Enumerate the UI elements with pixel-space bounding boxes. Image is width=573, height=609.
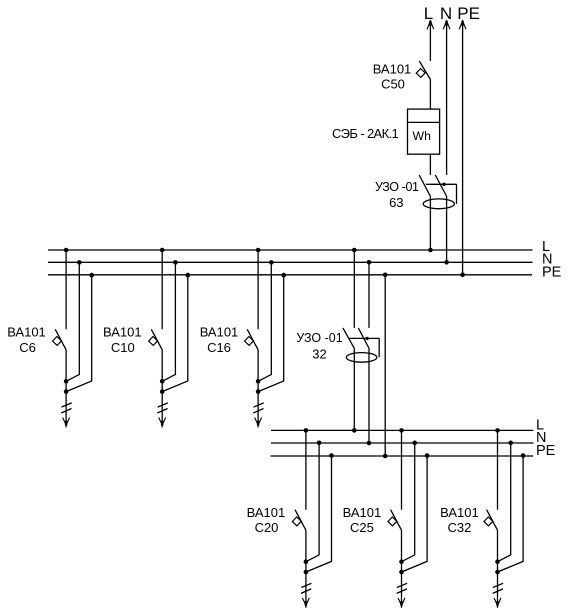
- svg-text:СЭБ - 2АК.1: СЭБ - 2АК.1: [332, 126, 399, 141]
- svg-text:N: N: [440, 4, 452, 23]
- svg-text:Wh: Wh: [412, 129, 431, 143]
- svg-text:С20: С20: [255, 520, 279, 535]
- svg-text:С16: С16: [207, 340, 231, 355]
- svg-text:ВА101: ВА101: [103, 324, 142, 339]
- svg-text:УЗО -01: УЗО -01: [375, 180, 419, 194]
- svg-text:ВА101: ВА101: [7, 324, 46, 339]
- svg-text:L: L: [424, 4, 433, 23]
- svg-text:ВА101: ВА101: [343, 505, 382, 520]
- svg-text:С6: С6: [19, 340, 36, 355]
- svg-text:ВА101: ВА101: [440, 505, 479, 520]
- svg-text:УЗО -01: УЗО -01: [296, 331, 342, 345]
- svg-text:ВА101: ВА101: [373, 62, 412, 77]
- svg-text:PE: PE: [457, 4, 480, 23]
- svg-text:63: 63: [389, 195, 403, 210]
- svg-text:32: 32: [312, 347, 326, 362]
- svg-text:ВА101: ВА101: [247, 505, 286, 520]
- svg-text:С10: С10: [111, 340, 135, 355]
- svg-text:PE: PE: [536, 443, 556, 459]
- svg-text:С50: С50: [381, 76, 405, 91]
- svg-text:PE: PE: [542, 264, 562, 280]
- svg-text:ВА101: ВА101: [200, 324, 239, 339]
- svg-text:С32: С32: [447, 520, 471, 535]
- svg-text:С25: С25: [350, 520, 374, 535]
